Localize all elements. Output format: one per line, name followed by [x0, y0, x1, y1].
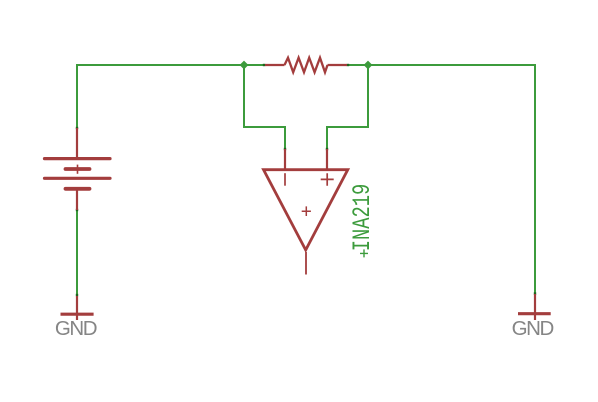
battery bottom pin — [76, 189, 78, 210]
junction dot right — [364, 61, 373, 70]
battery short plate 2 — [66, 187, 90, 191]
battery top pin — [76, 128, 78, 158]
pin-connection dot op-amp minus pin — [284, 148, 286, 150]
pin-connection dot resistor left lead — [263, 64, 265, 66]
ground symbol right — [534, 294, 536, 320]
pin-connection dot op-amp plus pin — [326, 148, 328, 150]
pin-connection dot right GND pin — [534, 292, 536, 294]
resistor left lead — [265, 64, 285, 66]
wire left vertical drop to battery — [76, 64, 78, 128]
wire right vertical drop to right GND — [534, 64, 536, 294]
svg-text:GND: GND — [55, 317, 97, 340]
pin-connection dot battery top — [76, 127, 78, 129]
op-amp output pin — [305, 252, 307, 275]
svg-text:INA219: INA219 — [349, 184, 377, 251]
junction dot left — [240, 61, 249, 70]
battery long plate 2 — [45, 177, 111, 180]
resistor right lead — [328, 64, 348, 66]
op-amp minus input marker — [284, 173, 286, 186]
pin-connection dot battery bottom — [76, 209, 78, 211]
svg-text:GND: GND — [512, 317, 554, 340]
op-amp plus input marker — [321, 173, 334, 186]
op-amp origin cross — [360, 249, 368, 257]
battery short plate 1 — [66, 167, 90, 171]
op-amp center plus marker — [302, 206, 311, 216]
wire top horizontal net right part — [349, 64, 535, 66]
op-amp U1 plus input pin — [326, 149, 328, 170]
op-amp U1 minus input pin — [284, 149, 286, 170]
battery long plate 1 — [45, 157, 111, 160]
battery plate 1 tick — [77, 165, 79, 174]
ground symbol left — [76, 296, 78, 320]
pin-connection dot resistor right lead — [347, 64, 349, 66]
pin-connection dot left GND pin — [76, 294, 78, 296]
wire right junction to op-amp plus input — [327, 65, 368, 149]
op-amp U1 triangle body — [264, 170, 348, 250]
resistor zigzag body — [285, 58, 328, 73]
wire left junction to op-amp minus input — [244, 65, 285, 149]
wire battery minus to left GND — [76, 210, 78, 296]
wire top horizontal net left part — [77, 64, 263, 66]
